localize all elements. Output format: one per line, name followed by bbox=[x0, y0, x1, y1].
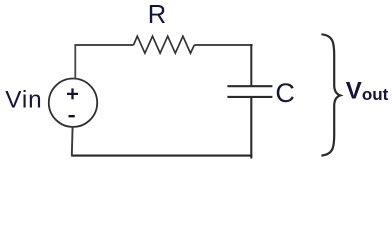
minus symbol bbox=[69, 115, 75, 117]
svg-text:C: C bbox=[275, 78, 295, 108]
svg-text:Vout: Vout bbox=[346, 78, 389, 105]
wire right lower vertical bbox=[250, 97, 252, 159]
wire bottom horizontal bbox=[71, 155, 252, 157]
label R bbox=[148, 1, 166, 29]
wire top horizontal to resistor bbox=[74, 44, 133, 46]
brace for Vout bbox=[321, 34, 340, 155]
voltage source Vin bbox=[49, 79, 97, 127]
label C bbox=[275, 78, 295, 108]
capacitor C bbox=[227, 86, 272, 97]
wire right upper vertical bbox=[250, 44, 252, 86]
svg-text:Vin: Vin bbox=[5, 86, 42, 113]
wire from source top to top-left corner bbox=[74, 45, 76, 79]
svg-text:R: R bbox=[148, 1, 166, 29]
wire resistor to top-right corner bbox=[194, 44, 252, 46]
label Vout bbox=[346, 78, 389, 105]
resistor R bbox=[134, 36, 195, 53]
label Vin bbox=[5, 86, 42, 113]
plus symbol bbox=[67, 88, 78, 99]
wire source bottom to bottom-left corner bbox=[71, 127, 74, 156]
